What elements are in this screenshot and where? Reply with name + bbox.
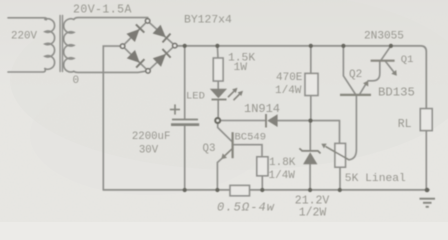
bridge edge bottom-right <box>150 47 174 69</box>
diode D1 top-left <box>127 29 140 42</box>
wire 1.8K bottom lead <box>261 176 263 190</box>
wire RL bottom lead <box>425 131 427 190</box>
resistor R3 1.8K box <box>257 157 268 176</box>
bridge corner node left <box>120 44 124 48</box>
wire pot wiper to Q2 base <box>349 96 356 160</box>
diode D6 1N914 <box>266 114 278 128</box>
svg-text:2200uF: 2200uF <box>132 131 170 143</box>
junction dots bottom rail <box>183 188 430 193</box>
svg-text:2N3055: 2N3055 <box>364 31 404 43</box>
wire Q3 emitter down <box>217 159 221 190</box>
transformer T1 secondary winding <box>64 19 74 72</box>
svg-text:1W: 1W <box>234 62 248 74</box>
wire Q1 collector to rail <box>381 46 391 60</box>
svg-text:RL: RL <box>398 118 412 131</box>
transformer T1 primary bottom lead <box>8 69 45 72</box>
svg-text:0: 0 <box>73 75 80 87</box>
bridge corner node top <box>145 19 149 23</box>
transformer T1 core <box>60 16 62 72</box>
wire zener top lead <box>309 121 311 150</box>
wire node to 1N914 <box>220 120 265 122</box>
LED D5 <box>210 88 243 101</box>
wire Q2 collector from rail <box>343 46 355 94</box>
wire secondary top lead to bridge top <box>74 18 148 20</box>
bridge edge top-left <box>124 23 146 45</box>
svg-text:BY127x4: BY127x4 <box>184 15 232 27</box>
wire 470E bottom lead <box>310 96 312 121</box>
svg-text:1N914: 1N914 <box>244 102 280 116</box>
svg-text:LED: LED <box>186 91 205 103</box>
bridge rectifier BY127x4 diodes <box>127 24 171 67</box>
wire 470E top lead <box>310 46 312 73</box>
wire capacitor top lead <box>184 46 186 119</box>
resistor R1 1.5K box <box>213 58 223 81</box>
wire Q3 base to 1.8K <box>234 145 262 157</box>
wire secondary bottom lead to bridge bottom <box>74 71 146 72</box>
svg-text:0.5Ω-4w: 0.5Ω-4w <box>217 201 275 215</box>
svg-text:BD135: BD135 <box>378 86 415 100</box>
svg-text:Q3: Q3 <box>203 143 216 155</box>
wire Q3 collector to node <box>218 123 233 142</box>
LED arrows <box>228 91 234 97</box>
zener diode Z1 21.2V <box>299 148 320 164</box>
svg-text:1.8K: 1.8K <box>269 157 296 169</box>
wire Q1 emitter lead <box>386 62 394 73</box>
transformer T1 primary winding <box>45 18 55 69</box>
transistor Q1 2N3055 base bar <box>371 60 395 62</box>
resistor R4 0.5 ohm box <box>230 185 250 195</box>
resistor RL box <box>420 109 432 131</box>
transformer T1 primary top lead <box>8 17 45 19</box>
svg-text:30V: 30V <box>139 145 159 157</box>
wire LED to node <box>217 100 219 118</box>
bridge corner node right <box>173 43 177 47</box>
resistor R2 470E box <box>305 73 318 95</box>
capacitor C1 plus sign <box>170 104 180 114</box>
svg-text:20V-1.5A: 20V-1.5A <box>73 3 132 16</box>
svg-text:1/2W: 1/2W <box>299 206 327 219</box>
wire zener bottom lead <box>309 164 311 190</box>
bridge edge top-right <box>149 23 173 45</box>
wire pot bottom lead <box>339 167 341 190</box>
svg-text:Q2: Q2 <box>349 69 362 81</box>
capacitor C1 plates <box>171 120 199 125</box>
svg-text:BC549: BC549 <box>235 132 267 144</box>
svg-text:1/4W: 1/4W <box>275 85 302 97</box>
junction dots top rail <box>183 44 393 48</box>
transistor Q2 BD135 base bar <box>340 94 371 96</box>
diode D2 top-right <box>153 25 166 38</box>
potentiometer P1 5K box <box>335 143 346 167</box>
potentiometer P1 wiper arrow <box>321 144 349 160</box>
diode D3 bottom-left <box>127 50 140 63</box>
ground symbol <box>420 199 436 207</box>
svg-text:Q1: Q1 <box>401 54 414 66</box>
svg-text:5K Lineal: 5K Lineal <box>345 173 406 185</box>
transistor Q2 emitter arrow <box>363 81 368 87</box>
wire bottom rail <box>103 189 429 191</box>
junction node Q3 collector (ring) <box>215 118 220 123</box>
wire Q2 emitter lead <box>360 85 366 94</box>
junction dot 470E/zener <box>308 119 312 123</box>
wire Q1 base from Q2 emitter <box>368 61 380 81</box>
transistor Q3 emitter arrow <box>221 148 232 159</box>
wire capacitor bottom lead <box>184 126 186 190</box>
wire bridge left corner to left rail <box>103 46 120 190</box>
svg-text:470E: 470E <box>276 72 303 84</box>
wire 1.5K to LED <box>217 81 219 89</box>
svg-text:220V: 220V <box>11 31 37 43</box>
wire top rail <box>177 46 426 109</box>
transistor Q3 BC549 <box>232 132 234 158</box>
wire 1N914 to pot top corner <box>278 121 340 144</box>
svg-text:1/4W: 1/4W <box>269 170 296 182</box>
bridge edge bottom-left <box>124 48 146 69</box>
diode D4 bottom-right <box>153 54 166 67</box>
transistor Q1 emitter arrow <box>391 70 397 76</box>
wire 1.5K top lead <box>216 46 219 58</box>
bridge corner node bottom <box>146 69 150 73</box>
